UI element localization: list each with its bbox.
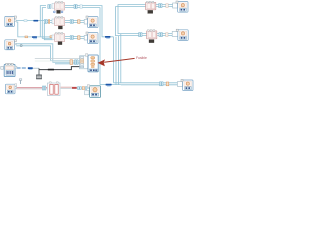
connector marks: cyan pair before R2 [44,20,45,24]
wire: C4 pink pair to fuse holder [16,86,47,88]
connector marks: cyan pair before P1 row lamp [159,4,160,8]
connector dash: blue dash on C1 drop wire [32,36,37,38]
svg-text:Fusible: Fusible [136,56,147,60]
fuse holder F1 (bottom row) [47,82,60,96]
connector marks: cyan pair on R1 right wires [74,5,75,9]
wire: R1 right wires to verticals x=103/105.5 [65,6,114,37]
component C4 (lamp, bottom-left) [5,84,16,94]
component C2 (lamp, second left) [5,39,17,49]
connector marks: light mark on C1 wire x=24 [24,20,27,22]
lamp RL1 (top right) [173,1,188,12]
connector strip (bottom row, before L3) [77,87,90,95]
relay P2 (pink, middle right) [147,30,157,39]
relay R1 icons below [53,10,63,13]
connector marks: cyan pair + orange on R2 right wires [70,20,71,24]
connector marks: cyan pair on P2 left wires [139,33,140,37]
wire: bundle v7 [117,36,119,85]
lamp L1 (middle column, row2) [84,16,98,28]
wire: bottom row horizontal y=84.6 [100,84,121,86]
tiny circle node near C2 wire [20,45,22,47]
wire: fuse holder to strip [61,86,77,88]
wire: bundle A vertical 2 (x=42.3, feeds relay R1 lower) [42,8,52,39]
wire: bottom row to lamp RL3 y=82.8 [114,82,183,84]
wire: very faint green-grey line y=61 [35,60,80,62]
wire: bundle v5 [113,37,115,83]
lamp L2 (middle column, row3) [84,32,98,44]
component C3 (connector box, third left) [1,63,17,76]
component C1 (lamp, top-left) [5,16,17,26]
connector dash: black dash on ground wire [48,69,54,71]
annotation: red arrow [98,58,135,66]
connector marks: marks on RL3 wires [160,82,161,86]
connector dash: blue dash on R1 drop wire [105,36,110,38]
wire: C1 to R2 horizontal y=20.6 [16,20,52,22]
connector marks: cyan mark on C4 pink wires [42,86,43,90]
relay P1 (pink, top right) [146,1,156,10]
ground symbol [36,75,41,79]
wire: C1 L-shaped drop to R3 row y=36.9 [16,22,52,37]
wire: black run to connector [39,67,80,70]
connector dash: red dash on bottom row [72,87,77,89]
wire: faint grey feed y=58.6 [35,58,80,60]
wire: R3 right wires to lamp L2 [65,36,85,38]
wire: third cyan feed into connector y=63.8 [55,63,80,65]
wire: P1 right wires to lamp RL1 [156,4,178,6]
relay P1 coil icon below [148,10,153,13]
wire: ground stem [38,68,40,75]
wire: RL3 lower feed y=84.8 [121,84,183,86]
lamp RL3 (bottom right) [177,79,193,90]
connector marks: orange mark before R3 [50,36,53,38]
connector marks: orange mark on C1 drop wire x=25 [25,36,28,38]
relay P2 coil icon below [149,40,154,43]
wire: C2 lower wire down to connector row y=60.6 [16,46,79,61]
connector marks: cyan pair on P2 right wires [159,33,160,37]
wire: bundle v6 [115,37,117,85]
connector marks: cyan pair before R1 [48,5,49,9]
wire: bundle A vertical 1 (x=40.2, feeds relay R1 upper) [40,6,46,37]
wire: bundle v8 [120,34,122,83]
relay R3 coil icon below [58,42,62,45]
relay R2 (faint pink, middle) [52,16,65,25]
lamp RL2 (middle right) [172,29,188,40]
fuse box FB (red arrow target) [85,54,98,72]
net stub tick at x=20.6 bottom row [19,79,21,84]
lamp L3 (bottom middle) [87,85,100,98]
connector marks: cyan pair + orange on R3 right wires [70,36,71,40]
wire: P2 right wires to lamp RL2 [157,33,178,35]
connector dash: blue dash on C3 wire [28,67,33,69]
relay R2 coil icon below [58,26,62,29]
wire: C2 upper wire down to fuse-box connector row y=62.2 [16,44,79,62]
connector dash: blue dash on bottom wire y=84.6 [106,84,112,86]
wire: R2 right wires to lamp L1 [65,20,85,22]
connector dash: blue dash on C1 wire [33,20,38,22]
wire: bundle A vertical 3 (x=44.3, R2 lower to R3) [44,23,52,40]
relay R1 (faint pink, top) [52,1,65,10]
connector block CB (left of fuse box) [80,56,88,69]
relay R3 (faint pink, third) [52,32,65,41]
connector marks: ticks on connector feeds y=58-64 [70,60,73,65]
wire: vertical bundle middle v3 (P1 lower / P2 lower) [116,7,147,36]
wire: vertical bundle middle v4 (P1 upper / P2 upper) [118,5,147,34]
wire: C3 dashed segments to junction [17,67,21,69]
